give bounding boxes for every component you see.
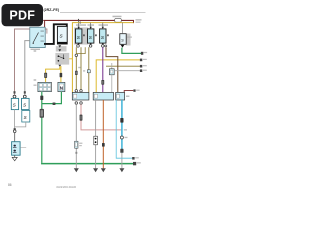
relay bottom pin triangles	[78, 43, 80, 45]
wire purple relay3 drop	[102, 47, 104, 92]
starter relay contacts	[58, 55, 60, 57]
ground orange drop	[101, 168, 106, 172]
connector on orange wire	[102, 143, 105, 147]
condenser box 2	[22, 111, 30, 123]
connector on yellow wire 2	[60, 73, 63, 77]
top rule line	[60, 12, 146, 14]
junction connector bar 3	[116, 92, 125, 100]
relay 4 shading	[126, 34, 131, 46]
wire gray with connector mid right	[111, 63, 113, 69]
svg-text:S: S	[121, 39, 124, 43]
page background	[0, 0, 149, 198]
junction circle above distributor	[13, 130, 16, 133]
connector on yellow wire	[44, 73, 47, 78]
svg-text:86: 86	[8, 183, 12, 187]
relay 4 bottom triangle	[121, 45, 125, 48]
pin triangle below main relay	[58, 45, 61, 47]
wire maroon tail right of switch	[45, 29, 47, 34]
wire black ignition switch to main relay	[44, 24, 67, 44]
connector on olive drop	[75, 71, 78, 75]
wire olive elbow to relay2	[76, 47, 85, 53]
pink label at end	[124, 129, 127, 130]
distributor connector (check connector grid)	[38, 82, 52, 91]
relay row label	[76, 24, 86, 25]
wire AM1 yellow feed	[72, 23, 133, 93]
svg-text:(2RZ–FE): (2RZ–FE)	[44, 8, 60, 12]
pin triangle below starter relay	[58, 65, 61, 67]
pin triangle between relay blocks	[58, 49, 61, 51]
fuse label	[113, 16, 122, 18]
labels near cyan wire	[125, 137, 128, 138]
label I11	[34, 79, 37, 81]
connector C1 cyan	[109, 69, 114, 75]
connector tick on condenser wire	[24, 91, 26, 93]
connector end green	[141, 52, 143, 55]
wire pink bar1 drop	[81, 104, 122, 130]
connector 2pin on gray drop	[94, 136, 98, 145]
wire maroon branch to ignition coil column	[15, 29, 30, 95]
connector on pink wire	[80, 115, 83, 121]
wire yellow out of junction 2	[96, 60, 141, 93]
connector on green wire	[40, 96, 43, 100]
svg-text:S: S	[23, 102, 26, 107]
wire yellow relay output to noise filter	[60, 66, 62, 82]
connector on cyan wire	[120, 118, 123, 123]
relay block 2 shading (starter relay)	[55, 53, 69, 65]
connector tick on coil wire	[14, 91, 16, 93]
connector tick 2	[79, 21, 82, 24]
ground below distributor	[14, 155, 16, 157]
wire orange bar2 drop	[102, 100, 104, 168]
condenser box	[22, 98, 30, 109]
wire olive EFI relay drop 2	[80, 47, 82, 91]
label I10	[34, 50, 37, 52]
wire gray below cyan	[121, 153, 123, 169]
junction circles above bar1	[75, 90, 78, 93]
wire condenser to coil column	[15, 122, 26, 127]
main relay U1	[57, 26, 67, 44]
wire cyan thick bar3 drop	[121, 100, 123, 153]
junction circle below EFI relay	[77, 45, 80, 48]
circuit opening relay	[88, 29, 94, 43]
relay top pin triangles	[78, 27, 80, 29]
relay side pin marks	[83, 34, 85, 36]
junction circle below circuit opening relay	[89, 45, 92, 48]
relay 4 (ST relay)	[120, 34, 126, 45]
connector on purple wire	[101, 80, 104, 85]
tick below cyan connector	[75, 152, 77, 154]
wire yellow link relay block to AM1 feed	[69, 58, 72, 60]
relay 4 labels	[127, 37, 132, 38]
junction circle below starter cut relay	[102, 45, 105, 48]
svg-text:ENGINE WIRING DIAGRAM: ENGINE WIRING DIAGRAM	[57, 186, 77, 189]
junction circle on olive drop	[75, 54, 78, 57]
ignition coil T1 terminal	[13, 95, 16, 98]
wire yellow relay output to distributor connector	[46, 67, 60, 83]
connector cyan on gray drop	[75, 141, 78, 148]
ground gray bar2 drop	[93, 168, 98, 172]
svg-text:S: S	[13, 102, 16, 107]
connector cyan on olive drop	[87, 70, 90, 73]
labels near olive wires	[78, 67, 80, 68]
connector end green bottom	[133, 162, 136, 165]
starter cut relay	[100, 29, 106, 43]
PDF badge	[2, 4, 44, 26]
wire maroon elbow right end	[133, 20, 135, 23]
wire gray bar1 drop to ground	[75, 104, 77, 168]
wire olive relay2 drop	[88, 47, 90, 92]
wire brown corner to junction 3	[106, 47, 118, 92]
svg-text:PDF: PDF	[9, 9, 35, 23]
label right of fuse row	[136, 19, 142, 20]
wire maroon drop to ignition switch AM	[44, 20, 46, 27]
connector tick above distributor circle	[14, 128, 16, 130]
grid label	[34, 85, 37, 86]
ignition switch label	[31, 49, 41, 50]
wire gray bar2 drop	[95, 100, 97, 168]
wire green noise filter elbow	[42, 92, 62, 104]
ignition coil T1	[11, 98, 18, 109]
relay block shading (main relay)	[56, 46, 67, 51]
connector tick 1	[78, 19, 79, 22]
junction connector bar 2	[93, 92, 113, 100]
wire gray right mid	[114, 70, 141, 72]
fuse FL MAIN	[115, 18, 122, 22]
wire maroon branch right mid	[124, 91, 133, 93]
wire olive EFI relay drop 1	[75, 47, 77, 91]
ground gray drop	[74, 168, 79, 172]
junction connector bar 1	[72, 92, 89, 100]
relay block shading (EFI relay block)	[74, 27, 88, 44]
ground cyan drop	[119, 168, 124, 172]
wire green bottom run	[42, 162, 134, 165]
relay 4 top pin	[122, 23, 124, 34]
ignition switch contacts	[33, 33, 38, 43]
wire olive right mid	[106, 65, 141, 67]
junction circles below bar1	[75, 102, 78, 105]
relay top pins	[78, 23, 80, 27]
noise filter N	[58, 82, 65, 91]
wire green distributor connector drop	[41, 92, 43, 163]
wire B-R main feed (fusible link row)	[43, 19, 134, 21]
wire gray branch to condenser column	[25, 41, 30, 95]
distributor label stub	[20, 146, 26, 148]
distributor	[14, 133, 16, 142]
EFI main relay	[76, 29, 82, 43]
condenser terminal	[23, 95, 26, 98]
wire coil column down	[14, 110, 16, 130]
wire cyan thin bar3 L	[116, 100, 133, 158]
connector big on green wire	[40, 109, 44, 118]
connector 2 on cyan wire	[120, 149, 123, 153]
junction circle on cyan wire	[120, 136, 123, 139]
connector tick on green elbow	[53, 103, 56, 106]
svg-text:S: S	[24, 115, 27, 120]
wire green relay4 output	[122, 48, 143, 54]
ignition switch	[30, 27, 45, 47]
label right of bar3	[126, 96, 129, 98]
